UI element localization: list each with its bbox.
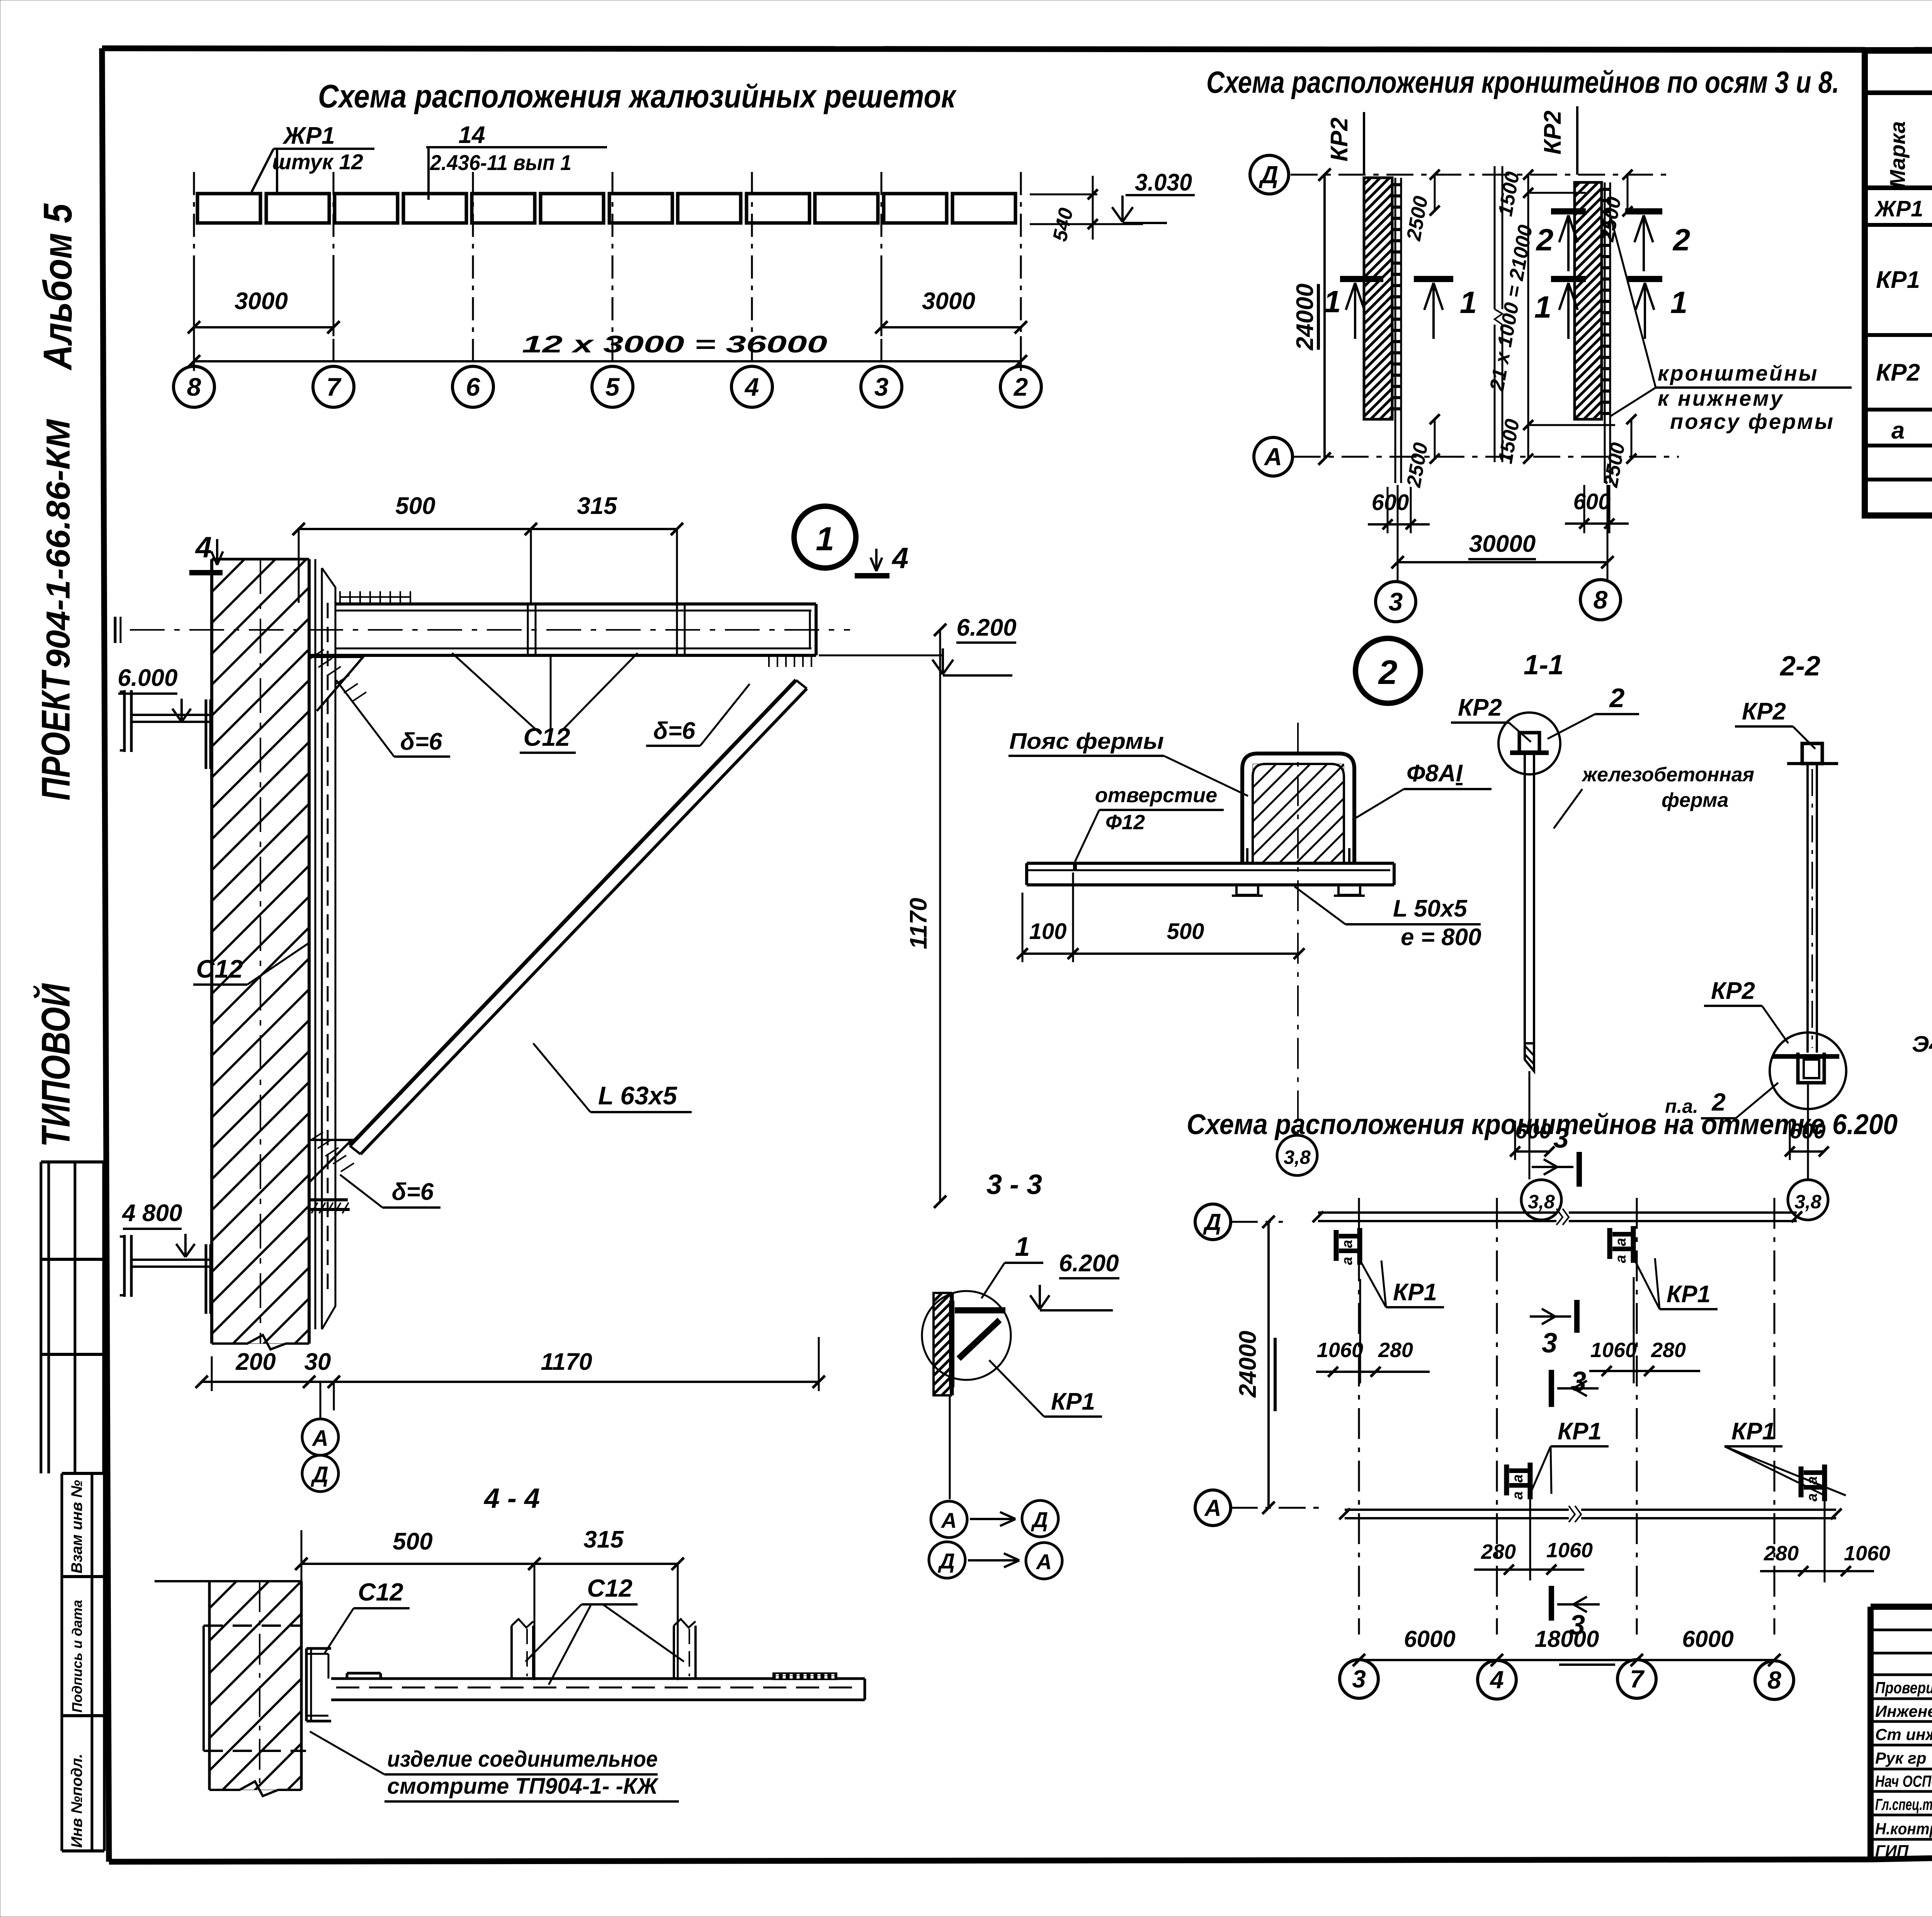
svg-text:6000: 6000 [1404,1626,1455,1652]
svg-text:Э42 по ГОСТ 9467- 75.: Э42 по ГОСТ 9467- 75. [1912,1032,1932,1057]
svg-text:6000: 6000 [1682,1626,1733,1652]
svg-text:1: 1 [1015,1232,1030,1262]
svg-text:КР2: КР2 [1742,698,1786,725]
svg-text:1060: 1060 [1546,1539,1593,1562]
svg-text:С12: С12 [358,1578,403,1606]
svg-text:3,8: 3,8 [1528,1191,1555,1213]
svg-text:1: 1 [1324,284,1341,319]
svg-text:2: 2 [1609,683,1625,713]
svg-text:2: 2 [1378,653,1398,691]
svg-text:КР1: КР1 [1393,1279,1437,1306]
svg-text:1060: 1060 [1844,1542,1890,1565]
svg-text:L 63х5: L 63х5 [598,1081,678,1110]
svg-text:КР1: КР1 [1667,1281,1711,1308]
svg-text:Схема расположения жалюзийных: Схема расположения жалюзийных решеток [318,78,957,114]
svg-text:А: А [1264,443,1282,471]
svg-text:КР1: КР1 [1051,1388,1095,1415]
svg-text:6.200: 6.200 [956,614,1016,641]
svg-text:δ=6: δ=6 [392,1179,434,1205]
svg-text:а: а [1339,1240,1355,1248]
svg-text:2: 2 [1013,373,1028,401]
svg-text:ТИПОВОЙ: ТИПОВОЙ [33,983,78,1147]
svg-text:1170: 1170 [541,1349,592,1375]
svg-text:смотрите ТП904-1- -КЖ: смотрите ТП904-1- -КЖ [387,1774,659,1799]
svg-text:904-1-66.86-КМ: 904-1-66.86-КМ [40,418,77,668]
svg-text:КР1: КР1 [1876,267,1920,293]
svg-text:4 - 4: 4 - 4 [483,1483,540,1514]
svg-text:Д: Д [1259,161,1278,189]
svg-text:С12: С12 [523,723,570,751]
svg-text:Схема расположения кронштейно: Схема расположения кронштейнов на отметк… [1187,1108,1898,1140]
svg-text:а: а [1613,1238,1629,1246]
svg-text:штук 12: штук 12 [272,150,363,174]
svg-text:4: 4 [744,373,759,401]
svg-text:КР2: КР2 [1458,694,1502,721]
svg-text:к нижнему: к нижнему [1658,386,1784,410]
svg-text:а: а [1613,1255,1629,1263]
svg-text:30: 30 [304,1349,331,1375]
svg-text:а: а [1510,1491,1526,1499]
svg-text:12 х 3000 = 36000: 12 х 3000 = 36000 [522,331,827,358]
svg-text:280: 280 [1481,1540,1516,1563]
svg-text:6.000: 6.000 [117,665,177,691]
svg-text:КР1: КР1 [1731,1418,1776,1445]
svg-text:А: А [311,1426,328,1451]
svg-text:2-2: 2-2 [1779,651,1820,682]
svg-text:1060: 1060 [1317,1339,1363,1362]
svg-text:500: 500 [395,493,435,519]
svg-text:600: 600 [1372,490,1409,515]
svg-text:С12: С12 [587,1574,632,1602]
svg-text:7: 7 [1630,1665,1645,1693]
svg-text:2: 2 [1672,223,1690,257]
svg-text:24000: 24000 [1235,1331,1261,1398]
svg-text:Инженер: Инженер [1875,1702,1932,1720]
svg-text:280: 280 [1378,1339,1413,1362]
svg-text:4: 4 [891,542,908,575]
svg-text:а: а [1891,417,1905,444]
svg-text:8: 8 [1767,1666,1781,1694]
svg-text:а: а [1510,1474,1526,1482]
svg-text:δ=6: δ=6 [653,718,696,744]
svg-text:1: 1 [1460,285,1477,320]
svg-text:1-1: 1-1 [1524,650,1564,680]
svg-text:ГИП: ГИП [1875,1842,1909,1860]
svg-text:e = 800: e = 800 [1401,924,1481,951]
svg-text:Гл.спец.т.о: Гл.спец.т.о [1875,1795,1932,1813]
svg-text:4: 4 [1489,1666,1504,1694]
svg-text:3: 3 [874,373,889,401]
svg-text:2.436-11 вып 1: 2.436-11 вып 1 [430,150,571,175]
svg-text:δ=6: δ=6 [400,728,442,755]
svg-text:Подпись и дата: Подпись и дата [69,1600,85,1713]
svg-text:ЖР1: ЖР1 [282,122,335,149]
svg-text:5: 5 [605,373,620,401]
svg-text:Взам инв №: Взам инв № [68,1480,85,1573]
svg-text:500: 500 [393,1528,432,1555]
svg-text:8: 8 [187,373,201,401]
svg-text:3: 3 [1553,1123,1569,1154]
svg-text:500: 500 [1167,919,1204,944]
svg-text:Нач ОСП-1: Нач ОСП-1 [1875,1772,1932,1790]
svg-text:6: 6 [466,373,481,401]
svg-text:1: 1 [1534,290,1552,324]
svg-text:30000: 30000 [1469,531,1536,557]
svg-text:1170: 1170 [905,898,932,949]
svg-text:600: 600 [1573,489,1611,514]
svg-text:3000: 3000 [235,288,288,315]
svg-text:18000: 18000 [1535,1626,1599,1652]
svg-text:3,8: 3,8 [1794,1191,1821,1213]
svg-text:3: 3 [1571,1366,1586,1397]
svg-text:а: а [1804,1493,1820,1501]
svg-text:24000: 24000 [1292,284,1318,350]
svg-text:Ст инж: Ст инж [1875,1725,1932,1744]
svg-text:Схема расположения кронштейно: Схема расположения кронштейнов по осям 3… [1206,65,1839,99]
svg-text:ПРОЕКТ: ПРОЕКТ [34,670,78,801]
svg-text:Н.контр.: Н.контр. [1875,1820,1932,1838]
svg-text:КР2: КР2 [1326,117,1353,162]
svg-text:3: 3 [1352,1665,1366,1693]
svg-text:Рук гр: Рук гр [1875,1749,1926,1767]
svg-text:А: А [1204,1495,1221,1521]
svg-text:4 800: 4 800 [121,1200,182,1226]
svg-text:Д: Д [310,1462,328,1487]
svg-text:ферма: ферма [1662,789,1728,811]
svg-text:КР2: КР2 [1876,359,1920,386]
svg-text:железобетонная: железобетонная [1581,764,1754,786]
svg-text:Проверил: Проверил [1875,1679,1932,1697]
svg-text:6.200: 6.200 [1059,1250,1119,1277]
svg-text:Инв №подл.: Инв №подл. [68,1754,85,1848]
svg-text:315: 315 [583,1526,624,1553]
svg-text:100: 100 [1029,919,1067,944]
svg-text:ЖР1: ЖР1 [1874,196,1923,221]
svg-text:280: 280 [1651,1339,1686,1362]
svg-text:КР2: КР2 [1711,978,1755,1004]
svg-text:КР1: КР1 [1558,1418,1602,1445]
svg-text:3 - 3: 3 - 3 [986,1169,1042,1200]
svg-text:Пояс фермы: Пояс фермы [1009,729,1164,754]
svg-text:8: 8 [1594,585,1608,614]
svg-text:Д: Д [938,1549,955,1573]
svg-text:3000: 3000 [922,288,975,315]
svg-text:поясу фермы: поясу фермы [1670,409,1835,434]
svg-text:1060: 1060 [1590,1339,1637,1362]
svg-text:280: 280 [1764,1542,1799,1565]
svg-text:Марка: Марка [1885,121,1910,188]
svg-text:7: 7 [327,373,342,401]
svg-text:1: 1 [1670,285,1688,320]
svg-text:3.030: 3.030 [1135,169,1192,196]
svg-text:L 50х5: L 50х5 [1393,895,1468,922]
svg-text:а: а [1339,1257,1355,1265]
svg-text:Д: Д [1202,1209,1221,1235]
svg-text:С12: С12 [196,954,243,983]
svg-text:отверстие: отверстие [1095,784,1217,807]
svg-text:315: 315 [577,493,617,519]
svg-text:Ф12: Ф12 [1105,811,1145,834]
svg-text:4: 4 [195,531,212,564]
svg-text:3,8: 3,8 [1284,1146,1311,1168]
svg-text:200: 200 [235,1349,276,1375]
svg-text:3: 3 [1389,587,1403,616]
svg-text:КР2: КР2 [1539,111,1566,155]
svg-text:Д: Д [1031,1507,1048,1532]
svg-text:А: А [940,1508,957,1533]
svg-text:А: А [1036,1550,1052,1574]
svg-text:1: 1 [816,520,834,558]
svg-text:3: 3 [1542,1328,1557,1359]
svg-text:кронштейны: кронштейны [1658,361,1818,385]
svg-text:14: 14 [459,122,485,148]
svg-text:Ф8АI: Ф8АI [1406,760,1463,787]
svg-text:изделие соединительное: изделие соединительное [387,1747,658,1772]
svg-text:2: 2 [1536,223,1554,257]
svg-text:Альбом 5: Альбом 5 [36,203,80,371]
